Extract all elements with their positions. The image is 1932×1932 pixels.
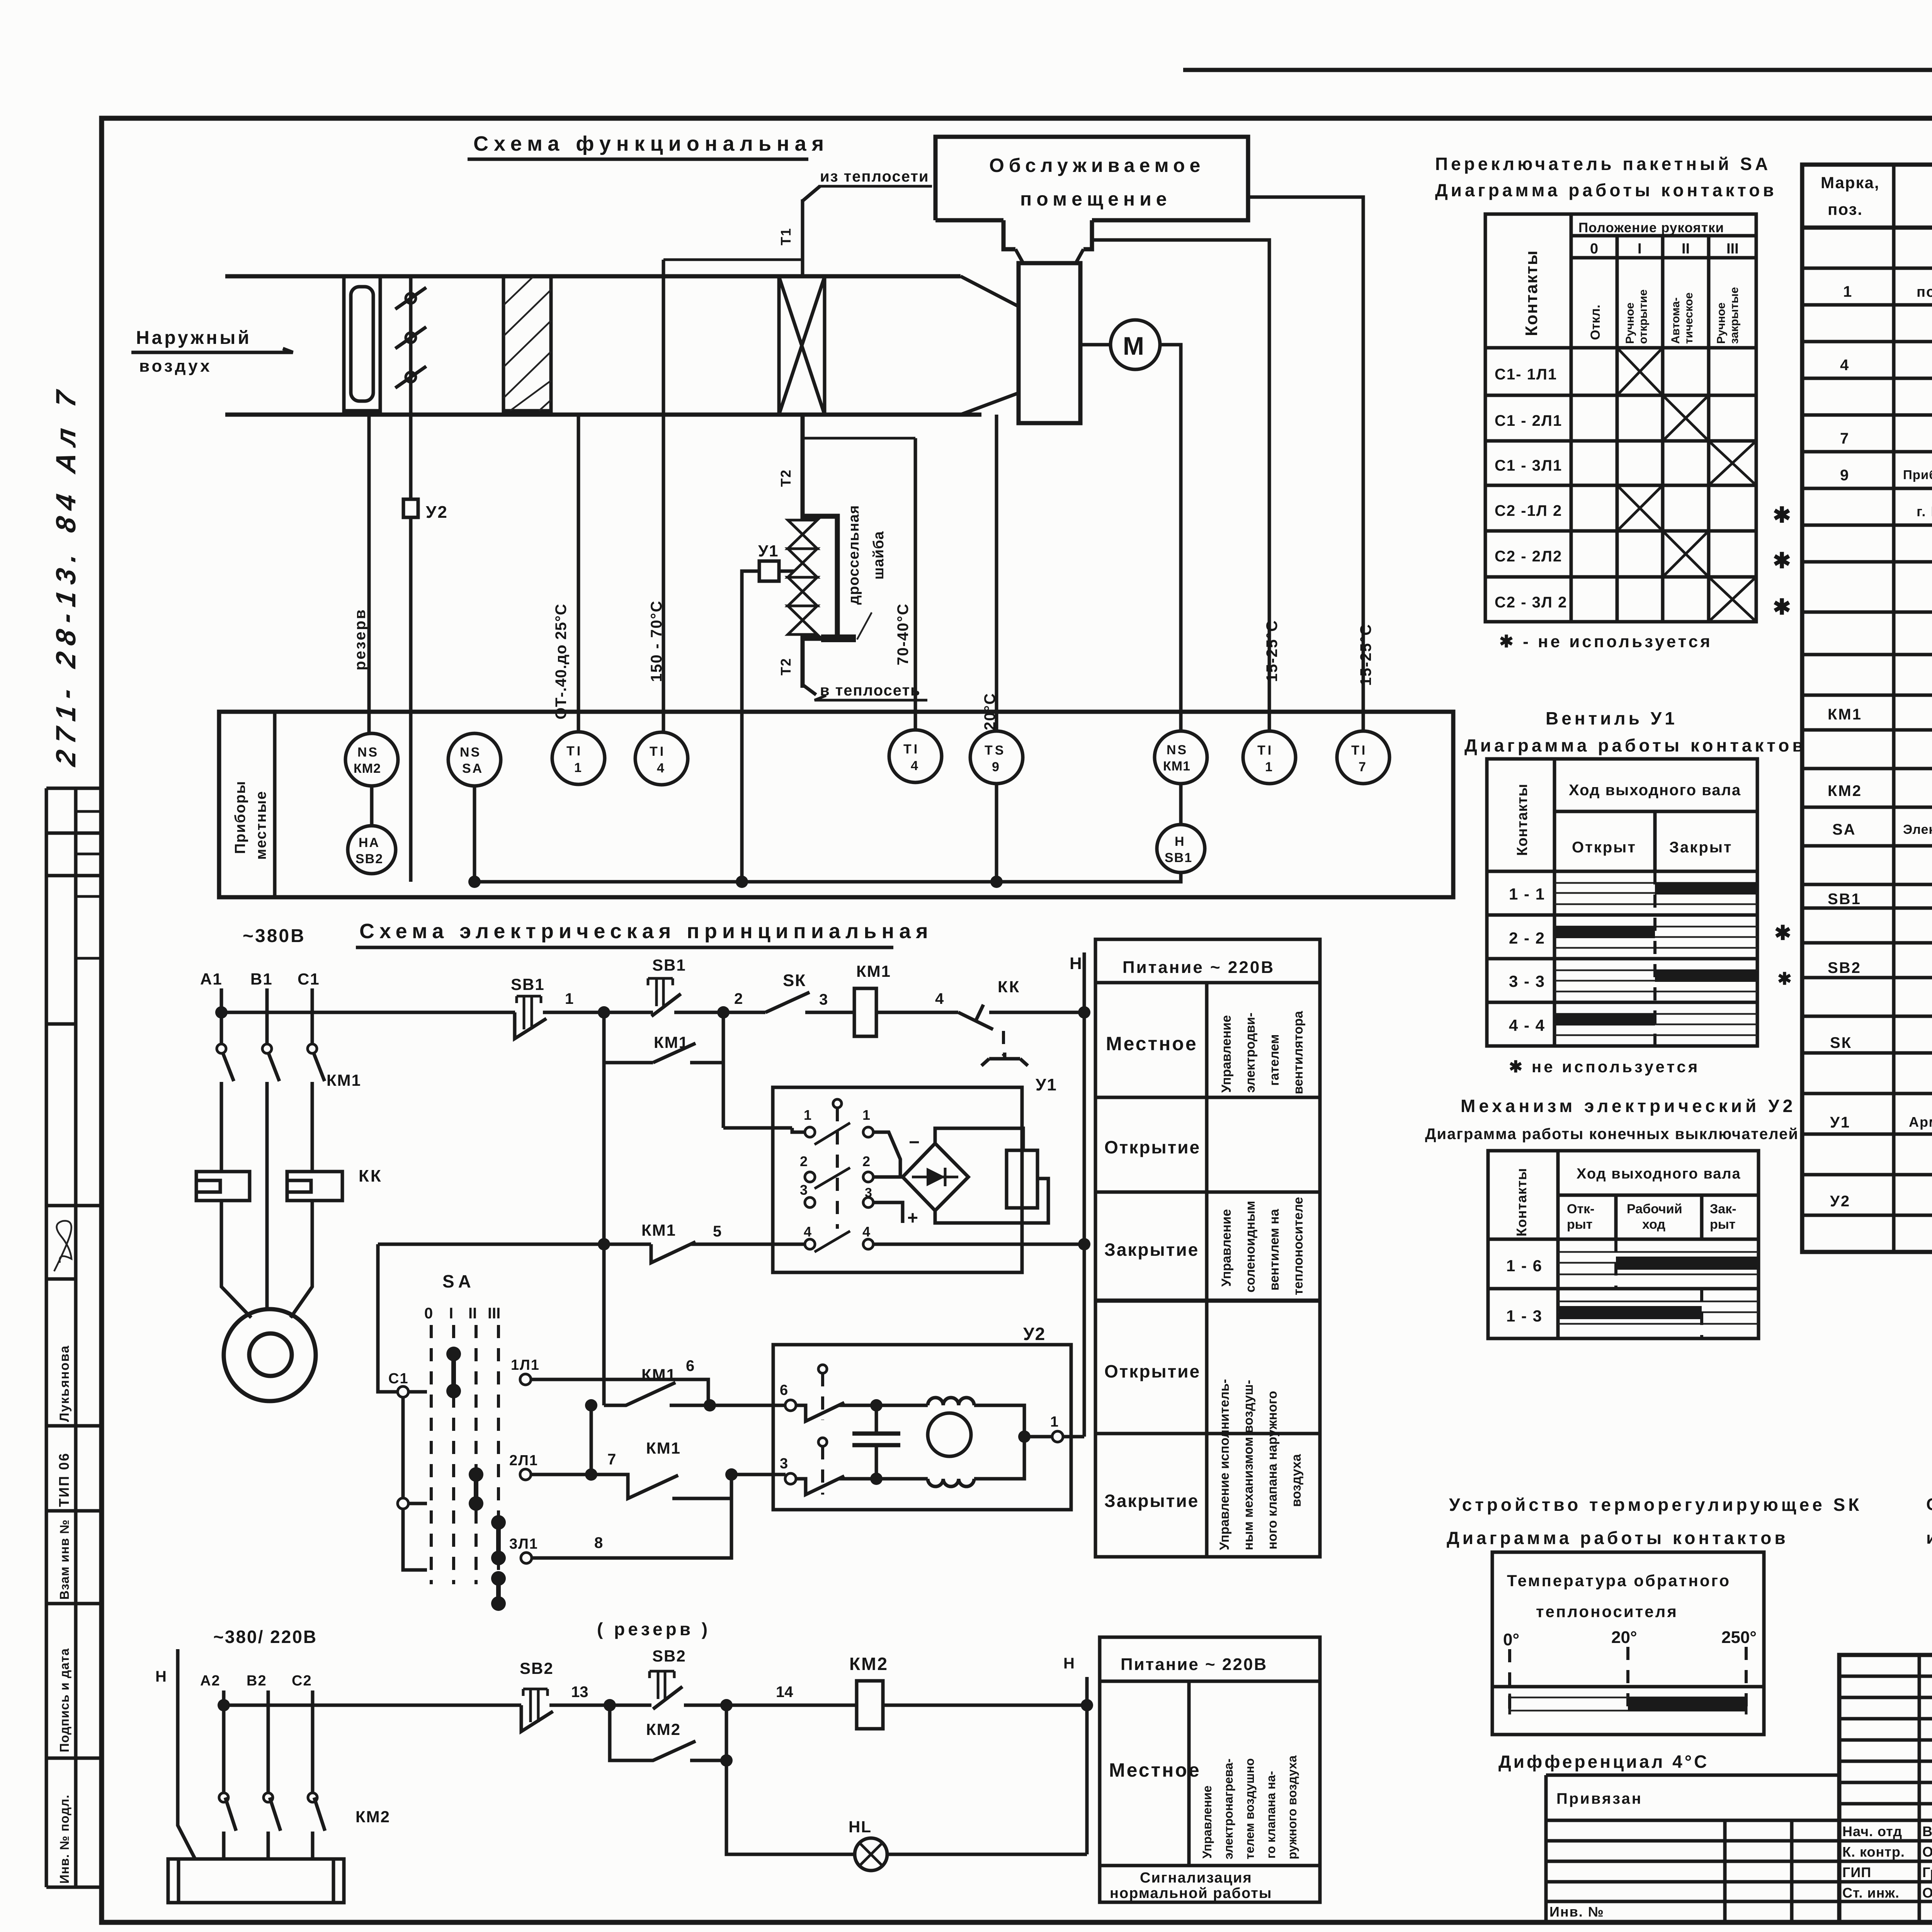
svg-text:Т2: Т2 (778, 658, 794, 675)
svg-text:ІІІ: ІІІ (1726, 241, 1739, 257)
svg-text:ТІ: ТІ (650, 744, 666, 759)
svg-text:Механизм электрический У2: Механизм электрический У2 (1461, 1096, 1796, 1116)
phase line C1 with KM1 main contact (311, 988, 314, 1172)
svg-text:SВ1: SВ1 (652, 956, 686, 974)
svg-text:В1: В1 (250, 970, 273, 988)
svg-text:SВ2: SВ2 (1828, 959, 1861, 976)
svg-text:3Л1: 3Л1 (509, 1536, 538, 1552)
svg-text:Приборы: Приборы (232, 781, 248, 854)
svg-text:2: 2 (862, 1153, 870, 1169)
instrument circle H SB1 (1157, 825, 1205, 872)
svg-text:0°: 0° (1503, 1630, 1519, 1649)
svg-text:Ручное: Ручное (1624, 303, 1636, 344)
svg-text:Диаграмма работы контактов: Диаграмма работы контактов (1435, 180, 1777, 200)
wire: резерв sensor line down to NS KM2 (367, 411, 371, 733)
svg-text:Приборостроительный завод: Приборостроительный завод (1903, 468, 1932, 482)
phase line A1 with KM1 main contact (220, 988, 223, 1172)
svg-text:SВ1: SВ1 (1165, 850, 1192, 865)
svg-text:КМ2: КМ2 (849, 1654, 888, 1674)
svg-text:ОТ-.40.до 25°С: ОТ-.40.до 25°С (553, 604, 570, 719)
left margin stamp column (46, 788, 102, 1887)
thermometer pocket (резерв) in duct (344, 277, 380, 411)
svg-text:4 - 4: 4 - 4 (1509, 1016, 1545, 1034)
svg-text:271- 28-13. 84 Ал 7: 271- 28-13. 84 Ал 7 (51, 382, 82, 769)
wire: room sensor TI-1b line (1092, 240, 1269, 731)
duct top wall (225, 274, 961, 279)
X mark r5 cII (1663, 531, 1709, 577)
svg-text:в теплосеть: в теплосеть (820, 682, 921, 699)
svg-text:открытие: открытие (1637, 289, 1650, 344)
svg-text:1 - 3: 1 - 3 (1506, 1307, 1543, 1325)
heat exchanger (crossed box) (779, 277, 825, 415)
motor (double circle) (224, 1309, 316, 1401)
SA contact bridge on line III (496, 1522, 501, 1558)
svg-text:из теплосети: из теплосети (820, 168, 929, 185)
svg-text:Контакты: Контакты (1514, 1168, 1529, 1236)
filter (hatched) (503, 277, 551, 411)
svg-text:Т1: Т1 (778, 228, 794, 245)
air damper louvres on line (395, 277, 426, 411)
svg-text:Контакты: Контакты (1522, 250, 1541, 336)
svg-text:Взам инв №: Взам инв № (57, 1519, 71, 1600)
У1 internal changeover mechanism (836, 1108, 839, 1229)
row 1-3 guides and band (1558, 1301, 1759, 1324)
wire: terminal 1R to row 2R (873, 1132, 900, 1177)
svg-text:Положение рукоятки: Положение рукоятки (1578, 220, 1724, 235)
control bus inside instrument box (474, 786, 1181, 882)
svg-text:теплоносителя: теплоносителя (1536, 1602, 1678, 1621)
svg-text:воздух: воздух (139, 357, 212, 376)
row 2-2 guides and band (Открыт) (1554, 927, 1757, 948)
svg-text:SА: SА (1832, 821, 1856, 838)
svg-text:5: 5 (713, 1223, 721, 1240)
row 3-3 guides and band (Закрыт) (1554, 970, 1757, 992)
SA contact bridge on line II (474, 1475, 478, 1503)
svg-text:С2: С2 (292, 1673, 312, 1689)
svg-text:Наружный: Наружный (136, 328, 252, 348)
solenoid valve У1 on pipe (759, 561, 779, 581)
svg-text:рыт: рыт (1567, 1217, 1592, 1232)
svg-text:нормальной работы: нормальной работы (1110, 1885, 1272, 1901)
dashed temperature ordinates (1510, 1647, 1746, 1712)
svg-text:0: 0 (1590, 241, 1598, 257)
svg-text:ТS: ТS (985, 743, 1006, 758)
svg-text:Открыт: Открыт (1572, 839, 1636, 856)
svg-text:Управление: Управление (1219, 1015, 1234, 1093)
wires: phases into motor (221, 1082, 312, 1318)
X mark r6 cIII (1709, 577, 1756, 622)
svg-text:Схемы составлены для одной: Схемы составлены для одной приточной сис… (1926, 1495, 1932, 1514)
svg-text:Инв. №: Инв. № (1549, 1904, 1604, 1920)
svg-text:2 - 2: 2 - 2 (1509, 929, 1545, 947)
wire: TS-9 sensor drop (20°C) (995, 415, 998, 731)
row 1-6 guides and band (1558, 1252, 1759, 1274)
svg-text:Открытие: Открытие (1104, 1361, 1201, 1381)
У2 limit switch upper (818, 1365, 827, 1373)
junction: TS9 line on bus (995, 784, 998, 882)
svg-text:SВ2: SВ2 (520, 1659, 554, 1677)
svg-text:✱: ✱ (1773, 548, 1791, 573)
svg-text:по „термоприбор;: по „термоприбор; (1917, 284, 1932, 300)
motor terminal box (168, 1859, 344, 1903)
SA contact bridge on line I (451, 1354, 456, 1391)
svg-text:7: 7 (1840, 430, 1849, 447)
junction: SA drop on bus (468, 876, 481, 888)
svg-text:Закрыт: Закрыт (1669, 839, 1733, 856)
svg-text:С2 - 3Л 2: С2 - 3Л 2 (1495, 594, 1567, 611)
svg-text:шайба: шайба (871, 531, 887, 580)
function table right of schematic (1095, 939, 1320, 1557)
svg-text:✱ - не используется: ✱ - не используется (1499, 632, 1713, 651)
dashed travel limits (1558, 1239, 1702, 1338)
svg-text:✱: ✱ (1773, 503, 1791, 527)
svg-text:ружного воздуха: ружного воздуха (1285, 1755, 1299, 1859)
thermal relay KK heater A (196, 1172, 250, 1201)
tap line for TI-4 sensor (663, 259, 803, 261)
svg-text:4: 4 (657, 761, 664, 776)
junction dot (598, 1006, 610, 1019)
svg-text:4: 4 (935, 990, 944, 1007)
svg-text:7: 7 (607, 1451, 616, 1468)
svg-text:рыт: рыт (1710, 1217, 1735, 1232)
wire: vertical link КМ1 rows (590, 1405, 593, 1475)
svg-text:15-25°С: 15-25°С (1264, 620, 1281, 682)
svg-text:NS: NS (460, 745, 481, 760)
svg-text:С1 - 3Л1: С1 - 3Л1 (1495, 457, 1562, 474)
svg-text:Управление: Управление (1200, 1786, 1214, 1859)
wire: C1 down branch (401, 1397, 405, 1498)
svg-text:~380В: ~380В (243, 926, 306, 946)
svg-text:У1: У1 (758, 542, 779, 560)
svg-text:С1: С1 (298, 970, 320, 988)
svg-text:ного клапана наружного: ного клапана наружного (1265, 1391, 1280, 1550)
svg-text:1: 1 (862, 1107, 870, 1123)
svg-text:SА: SА (442, 1271, 475, 1291)
motor M circle (1111, 320, 1160, 369)
svg-text:Ст. инж.: Ст. инж. (1842, 1885, 1900, 1901)
svg-text:ТИП 06: ТИП 06 (56, 1452, 72, 1507)
svg-text:С2 -1Л 2: С2 -1Л 2 (1495, 502, 1562, 519)
wire: rectifier minus to coil (935, 1128, 1023, 1150)
svg-text:местные: местные (253, 791, 269, 860)
attachment box Привязан (1546, 1775, 1839, 1922)
У2 terminal 6 (785, 1400, 796, 1411)
svg-text:ІІІ: ІІІ (488, 1305, 500, 1322)
svg-text:Охлобыстина: Охлобыстина (1922, 1844, 1932, 1860)
svg-text:Н: Н (1070, 954, 1082, 973)
svg-text:ТІ: ТІ (1351, 743, 1367, 758)
svg-text:✱: ✱ (1777, 969, 1792, 988)
svg-text:Контакты: Контакты (1514, 784, 1531, 856)
separating line (1492, 1685, 1764, 1689)
svg-text:✱: ✱ (1774, 922, 1791, 944)
svg-text:Лукьянова: Лукьянова (57, 1345, 72, 1422)
phase A2 (222, 1690, 226, 1859)
wire: NS KM1 to H SB1 (1179, 784, 1183, 825)
svg-text:4: 4 (804, 1224, 811, 1240)
svg-text:4: 4 (911, 759, 918, 773)
svg-text:Откл.: Откл. (1588, 304, 1603, 340)
svg-text:Схема функциональная: Схема функциональная (473, 132, 829, 155)
svg-text:У2: У2 (1023, 1324, 1046, 1344)
pipe Т2 return with valve battery (801, 415, 805, 688)
capacitor (875, 1405, 878, 1479)
svg-text:0: 0 (424, 1305, 433, 1322)
svg-text:3 - 3: 3 - 3 (1509, 972, 1545, 990)
svg-text:Н: Н (1175, 834, 1184, 849)
svg-text:КМ1: КМ1 (641, 1366, 676, 1384)
row 4-4 guides and band (Открыт) (1554, 1014, 1757, 1035)
svg-text:КМ1: КМ1 (641, 1221, 676, 1239)
svg-text:14: 14 (776, 1684, 793, 1701)
wire: row 5 to SA C1 (378, 1244, 398, 1392)
svg-text:НА: НА (359, 835, 380, 850)
row 1-1 guides and band (closed side: Закрыт) (1554, 883, 1757, 904)
instrument circle TI 4 (635, 732, 688, 785)
svg-text:КМ1: КМ1 (646, 1439, 681, 1457)
svg-text:Т2: Т2 (778, 469, 794, 487)
neutral lead into motor box (178, 1649, 195, 1859)
svg-text:Открытие: Открытие (1104, 1137, 1201, 1157)
bypass with throttle washer (дроссельная шайба) (803, 516, 837, 638)
svg-text:Температура обратного: Температура обратного (1507, 1571, 1731, 1590)
phase C2 (311, 1690, 315, 1859)
wire: У1 control drop to bus (742, 571, 759, 882)
svg-text:9: 9 (1840, 467, 1849, 484)
У2 motor rotor circle (928, 1413, 971, 1456)
svg-text:Переключатель пакетный SА: Переключатель пакетный SА (1435, 154, 1771, 174)
instrument circle NS KM1 (1155, 731, 1207, 784)
svg-text:Вентиль У1: Вентиль У1 (1546, 708, 1678, 728)
instrument circle NS SA (448, 733, 501, 786)
svg-text:вентилятора: вентилятора (1291, 1010, 1306, 1094)
svg-text:NS: NS (1167, 743, 1188, 757)
svg-text:КМ2: КМ2 (355, 1808, 390, 1826)
svg-text:резерв: резерв (352, 608, 369, 670)
svg-text:~380/ 220В: ~380/ 220В (213, 1627, 317, 1647)
svg-text:SВ1: SВ1 (511, 975, 545, 993)
svg-text:Н: Н (1063, 1655, 1075, 1672)
svg-text:4: 4 (862, 1224, 870, 1240)
svg-text:Диаграмма работы конечных в: Диаграмма работы конечных выключателей (1425, 1126, 1799, 1143)
svg-text:Отк-: Отк- (1567, 1202, 1594, 1216)
wire: NS KM2 to HA SB2 (370, 786, 374, 826)
У1 solenoid block outline (773, 1087, 1022, 1272)
svg-text:SВ1: SВ1 (1828, 891, 1861, 908)
svg-text:SВ2: SВ2 (355, 852, 383, 866)
svg-text:Дифференциал 4°С: Дифференциал 4°С (1498, 1752, 1709, 1772)
row 5: KM1 interlock to У1 (378, 1243, 805, 1246)
svg-text:Подпись и дата: Подпись и дата (57, 1648, 71, 1752)
svg-text:3: 3 (780, 1456, 788, 1472)
svg-text:ТІ: ТІ (903, 742, 920, 757)
contact state band (1510, 1694, 1746, 1714)
svg-text:Автома-: Автома- (1669, 298, 1682, 344)
svg-text:Закрытие: Закрытие (1104, 1240, 1199, 1260)
signature squiggle in left column (54, 1221, 71, 1272)
svg-text:вентилем на: вентилем на (1267, 1209, 1282, 1291)
wire: У2 control line down to bus (409, 517, 413, 882)
svg-text:6: 6 (686, 1357, 694, 1374)
phase B2 (267, 1690, 270, 1859)
svg-text:1Л1: 1Л1 (511, 1357, 540, 1373)
X mark r4 cI (1617, 485, 1663, 531)
svg-text:КК: КК (998, 978, 1020, 996)
phase line B1 with KM1 main contact (265, 988, 269, 1043)
svg-text:1 - 1: 1 - 1 (1509, 885, 1545, 903)
duct bottom wall (225, 413, 981, 417)
wire: TI-4 sensor drop (662, 260, 665, 732)
svg-text:ТІ: ТІ (566, 744, 583, 759)
svg-text:Рабочий: Рабочий (1627, 1202, 1682, 1216)
svg-text:+: + (907, 1208, 918, 1228)
svg-text:электродви-: электродви- (1243, 1013, 1258, 1093)
svg-text:Зак-: Зак- (1710, 1202, 1736, 1216)
pipe Т1 supply (801, 199, 804, 277)
svg-text:КМ2: КМ2 (354, 761, 381, 776)
svg-text:ТІ: ТІ (1257, 743, 1274, 758)
svg-text:теплоносителе: теплоносителе (1291, 1197, 1306, 1295)
svg-text:Диаграмма работы контактов: Диаграмма работы контактов (1464, 735, 1806, 755)
svg-text:1: 1 (804, 1107, 811, 1123)
actuator У2 (air valve drive) (403, 499, 418, 517)
svg-text:2Л1: 2Л1 (509, 1452, 538, 1469)
instrument circle TI 1 (552, 732, 605, 784)
svg-text:воздуха: воздуха (1289, 1454, 1304, 1507)
junction dot rail/N (1078, 1006, 1090, 1019)
svg-text:У1: У1 (1036, 1075, 1057, 1094)
control rail 220V (221, 1011, 1084, 1014)
wire into У1 terminal 1 (723, 1128, 805, 1132)
svg-text:250°: 250° (1721, 1628, 1757, 1647)
svg-text:ІІ: ІІ (1682, 241, 1690, 257)
dashed switch lines (431, 1325, 498, 1584)
svg-text:С1- 1Л1: С1- 1Л1 (1495, 366, 1557, 383)
svg-text:SК: SК (783, 971, 806, 990)
svg-text:Закрытие: Закрытие (1104, 1491, 1199, 1511)
instrument circle NS KM2 (345, 733, 398, 786)
svg-text:Электротехнический завод: Электротехнический завод (1903, 822, 1932, 837)
svg-text:КМ1: КМ1 (1163, 759, 1190, 774)
svg-text:Устройство терморегулирующее: Устройство терморегулирующее SК (1449, 1495, 1862, 1515)
tap line for TI-4b (70-40°C) (803, 437, 915, 440)
svg-text:А1: А1 (200, 970, 223, 988)
row lines (1802, 268, 1932, 1215)
svg-text:−: − (909, 1132, 920, 1153)
svg-text:ным механизмом воздуш-: ным механизмом воздуш- (1241, 1380, 1256, 1550)
served room box (Обслуживаемое помещение) (935, 137, 1248, 249)
svg-text:М: М (1123, 332, 1144, 360)
svg-text:4: 4 (1840, 357, 1849, 374)
valve battery (4 bowties) (788, 520, 817, 634)
X mark r2 cII (1663, 395, 1709, 441)
У2 terminal 3 (785, 1473, 796, 1484)
svg-text:тическое: тическое (1682, 293, 1695, 344)
svg-text:✱ не используется: ✱ не используется (1509, 1058, 1700, 1076)
svg-text:( резерв ): ( резерв ) (597, 1619, 711, 1639)
junction: У1 line on bus (736, 876, 748, 888)
svg-text:г. Каменец - Подольский: г. Каменец - Подольский (1917, 503, 1932, 519)
svg-text:электронагрева-: электронагрева- (1221, 1759, 1235, 1859)
svg-text:КМ1: КМ1 (327, 1071, 361, 1089)
svg-text:8: 8 (594, 1534, 603, 1551)
svg-text:ход: ход (1642, 1217, 1665, 1232)
svg-text:Арматурный завод.: Арматурный завод. (1909, 1114, 1932, 1130)
X mark r1 cI (1617, 348, 1663, 395)
svg-text:3: 3 (819, 991, 828, 1008)
svg-text:Н: Н (155, 1668, 167, 1685)
svg-text:Местное: Местное (1109, 1759, 1201, 1781)
svg-text:SA: SA (462, 761, 483, 776)
SA contact bridge on line III lower (496, 1578, 501, 1604)
svg-text:ІІ: ІІ (468, 1305, 477, 1322)
svg-text:1: 1 (1265, 760, 1272, 774)
svg-text:КМ2: КМ2 (646, 1720, 681, 1738)
svg-text:поз.: поз. (1828, 200, 1863, 218)
svg-text:С2 - 2Л2: С2 - 2Л2 (1495, 548, 1562, 565)
fan casing (1019, 263, 1080, 423)
svg-text:Обслуживаемое: Обслуживаемое (989, 155, 1205, 176)
svg-text:С1: С1 (388, 1371, 409, 1387)
junction on N (1081, 1699, 1093, 1711)
svg-text:КМ2: КМ2 (1828, 782, 1862, 799)
svg-text:7: 7 (1359, 760, 1366, 774)
У2 terminal 1 to N (1018, 1430, 1031, 1443)
svg-text:Привязан: Привязан (1556, 1790, 1643, 1807)
svg-text:Местное: Местное (1106, 1033, 1198, 1054)
wire: terminal 3R down to plus wire (873, 1202, 903, 1223)
svg-text:13: 13 (571, 1684, 588, 1701)
junction dot (717, 1006, 730, 1019)
lower motor winding (876, 1477, 928, 1481)
KM2 main contacts (225, 1798, 325, 1831)
instrument circle TI 4b (889, 730, 942, 782)
svg-text:В2: В2 (247, 1673, 267, 1689)
wire: room sensor TI-7 line (1248, 197, 1363, 731)
svg-text:К. контр.: К. контр. (1842, 1844, 1905, 1860)
thermal relay KK heater C (287, 1172, 342, 1201)
svg-text:SВ2: SВ2 (652, 1647, 686, 1665)
svg-text:І: І (449, 1305, 453, 1322)
svg-text:1: 1 (574, 760, 582, 775)
svg-text:70-40°С: 70-40°С (895, 603, 912, 665)
svg-text:1: 1 (1843, 283, 1852, 300)
svg-text:закрытые: закрытые (1728, 287, 1741, 344)
neutral wire N vertical (1083, 952, 1086, 1437)
wire: damper drive rod down to У2 actuator (409, 411, 413, 499)
relay coil in У1 (1007, 1150, 1037, 1208)
У2 limit switch lower (818, 1438, 827, 1446)
svg-text:КМ1: КМ1 (856, 962, 891, 980)
wire: row4 through block to N (873, 1243, 1084, 1246)
svg-text:9: 9 (992, 760, 999, 774)
svg-text:Ход выходного вала: Ход выходного вала (1577, 1166, 1741, 1182)
control bus 220V row 13-14 (224, 1704, 1087, 1707)
wire: row 2R to rectifier (873, 1175, 903, 1179)
svg-text:15-25°С: 15-25°С (1357, 624, 1374, 686)
svg-text:Инв. № подл.: Инв. № подл. (57, 1794, 71, 1884)
svg-text:Питание ~ 220В: Питание ~ 220В (1121, 1655, 1267, 1674)
svg-text:Управление: Управление (1219, 1209, 1234, 1287)
svg-text:2: 2 (800, 1153, 808, 1169)
svg-text:го клапана на-: го клапана на- (1264, 1771, 1278, 1859)
wire: rectifier plus loop (935, 1179, 1048, 1223)
svg-text:С1 - 2Л1: С1 - 2Л1 (1495, 412, 1562, 429)
instrument circle TI 1 (room) (1243, 731, 1296, 784)
svg-text:дроссельная: дроссельная (846, 505, 862, 605)
rectifier bridge (903, 1143, 968, 1211)
svg-text:помещение: помещение (1020, 188, 1172, 210)
